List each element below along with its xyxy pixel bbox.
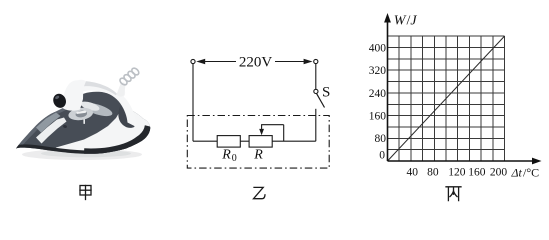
svg-text:/J: /J bbox=[407, 14, 418, 29]
svg-text:200: 200 bbox=[490, 167, 508, 179]
svg-text:220V: 220V bbox=[239, 55, 273, 71]
svg-text:R: R bbox=[221, 148, 231, 163]
svg-text:240: 240 bbox=[369, 88, 387, 100]
svg-text:80: 80 bbox=[375, 133, 387, 145]
svg-text:0: 0 bbox=[232, 153, 237, 164]
svg-text:320: 320 bbox=[369, 65, 387, 77]
svg-text:/°C: /°C bbox=[523, 166, 539, 180]
svg-text:160: 160 bbox=[369, 111, 387, 123]
svg-text:S: S bbox=[322, 84, 330, 100]
svg-text:Δt: Δt bbox=[511, 166, 523, 180]
svg-text:160: 160 bbox=[468, 167, 486, 179]
svg-text:400: 400 bbox=[369, 42, 387, 54]
svg-text:40: 40 bbox=[407, 167, 419, 179]
svg-text:0: 0 bbox=[379, 150, 385, 162]
svg-text:120: 120 bbox=[448, 167, 466, 179]
svg-text:W: W bbox=[394, 14, 407, 29]
svg-text:R: R bbox=[253, 148, 263, 163]
svg-text:80: 80 bbox=[427, 167, 439, 179]
